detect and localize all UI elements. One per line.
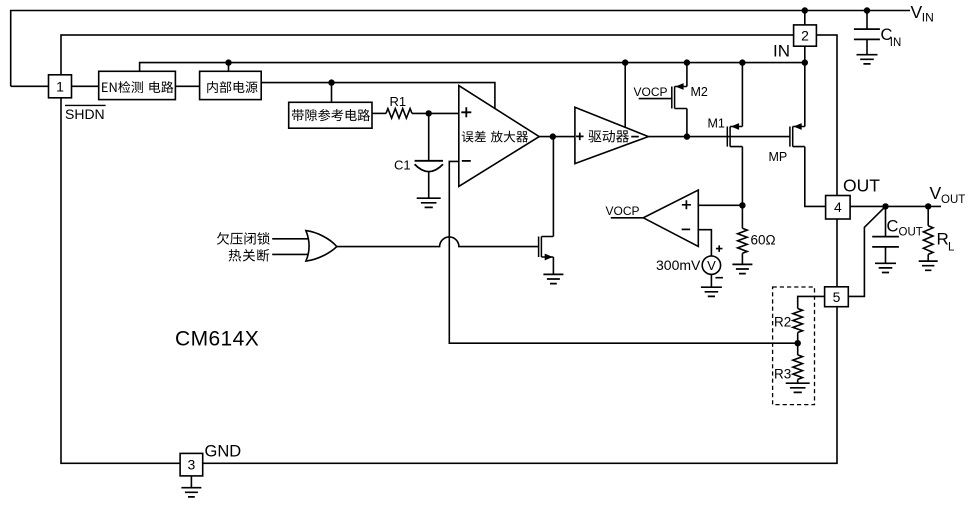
label COUT: [887, 218, 923, 239]
transistor M2: [672, 83, 687, 108]
svg-text:300mV: 300mV: [656, 257, 701, 273]
pin 1 SHDN: [49, 75, 72, 98]
wire pin2 IN vertical to MP source: [804, 11, 806, 127]
svg-text:1: 1: [56, 78, 64, 94]
wire driver output to gates: [648, 136, 790, 138]
wire error amp output: [539, 136, 575, 138]
capacitor C1: [415, 113, 443, 197]
label CIN: [881, 26, 902, 49]
wire pin4 to VOUT: [850, 205, 941, 207]
wire OR output to NMOS gate with hop: [337, 237, 539, 247]
svg-text:OUT: OUT: [843, 176, 880, 196]
label UVLO 欠压闭锁: [217, 232, 270, 245]
svg-text:R2: R2: [774, 315, 791, 330]
wire comparator + input to 60ohm node: [698, 204, 742, 206]
junction rail A / M1 source: [739, 59, 745, 65]
node feedback tap: [795, 340, 801, 346]
wire comparator output net VOCP: [611, 217, 644, 219]
wire stub to internal-power block top: [228, 63, 230, 72]
svg-text:GND: GND: [205, 443, 242, 461]
block bandgap reference: [289, 102, 372, 128]
svg-text:OUT: OUT: [899, 227, 923, 239]
svg-text:IN: IN: [890, 37, 902, 49]
svg-text:3: 3: [188, 457, 196, 473]
svg-text:V: V: [930, 183, 942, 203]
wire M2 gate / net VOCP: [639, 98, 672, 100]
junction rail A / pin2 / MP source: [802, 59, 808, 65]
voltage source 300mV: [702, 245, 723, 277]
junction rail B / bandgap: [328, 79, 334, 85]
wire R1 to error amp + input: [412, 112, 459, 114]
divider dashed box: [773, 287, 815, 405]
svg-text:VOCP: VOCP: [606, 204, 640, 218]
svg-text:VOCP: VOCP: [634, 85, 668, 99]
node R1/C1/+: [426, 110, 432, 116]
svg-text:2: 2: [801, 28, 809, 44]
node VOUT/RL: [925, 203, 931, 209]
resistor R3: [793, 355, 803, 380]
op-amp driver: [575, 107, 649, 163]
wire 60ohm to ground: [741, 253, 743, 264]
ground CIN: [857, 55, 878, 64]
label RL: [937, 230, 956, 254]
wire M2 drain stub: [686, 109, 688, 137]
junction rail A / driver supply: [622, 59, 628, 65]
op-amp VOCP comparator: [643, 190, 698, 246]
ground RL: [919, 261, 938, 270]
ground COUT: [875, 263, 896, 272]
wire M1 drain to 60ohm node: [741, 147, 743, 206]
label thermal shutdown 热关断: [229, 249, 270, 262]
svg-text:CM614X: CM614X: [175, 328, 259, 351]
svg-text:R3: R3: [774, 367, 791, 382]
ground pin3: [181, 476, 201, 497]
block EN detect circuit: [99, 71, 176, 99]
svg-text:IN: IN: [773, 42, 790, 61]
svg-text:C: C: [887, 218, 899, 236]
resistor R1: [386, 109, 412, 119]
wire EN block to internal power: [175, 85, 199, 87]
wire stub to bandgap block top: [331, 83, 333, 103]
wire driver supply stub: [624, 63, 626, 128]
svg-text:R1: R1: [390, 94, 407, 109]
svg-text:MP: MP: [769, 150, 788, 164]
svg-text:M1: M1: [708, 117, 725, 131]
wire pin5 to R2: [798, 296, 825, 308]
svg-text:R: R: [937, 230, 949, 249]
label VOUT: [930, 183, 966, 206]
wire source to ground: [710, 274, 712, 287]
svg-text:C1: C1: [394, 158, 411, 173]
resistor 60ohm: [738, 228, 748, 253]
transistor MP pass device: [790, 123, 805, 147]
block internal power: [200, 71, 262, 99]
resistor RL: [923, 206, 933, 260]
junction rail A / internal power: [225, 59, 231, 65]
pin 4 OUT: [826, 196, 851, 220]
wire NMOS source to ground: [552, 257, 554, 274]
wire pin1 to EN block: [72, 85, 99, 87]
wire R2 to R3: [797, 333, 799, 355]
junction rail A / M2 source: [684, 59, 690, 65]
wire internal supply rail A: [140, 63, 805, 72]
ground NMOS: [543, 274, 563, 283]
resistor R2: [793, 309, 803, 333]
pin 5 FB: [825, 287, 849, 307]
svg-text:M2: M2: [691, 85, 708, 99]
svg-text:IN: IN: [922, 11, 934, 25]
label SHDN with overline: [65, 105, 106, 122]
label VIN: [911, 2, 934, 25]
node comparator+/M1 drain/60ohm: [739, 202, 745, 208]
wire UVLO input: [272, 238, 309, 240]
op-amp U1 error amplifier: [459, 86, 539, 187]
wire error amp - input feedback to R2/R3 tap: [449, 161, 797, 343]
svg-text:SHDN: SHDN: [65, 106, 105, 122]
pin 2 IN: [794, 25, 817, 46]
svg-text:60Ω: 60Ω: [751, 233, 776, 248]
svg-text:V: V: [707, 258, 716, 273]
capacitor COUT: [872, 206, 899, 263]
svg-text:L: L: [948, 242, 955, 254]
junction VIN / pin2: [802, 7, 808, 13]
node driver output / M2 drain: [684, 133, 690, 139]
wire pin5 sense to OUT node: [848, 206, 885, 296]
ground C1: [417, 198, 441, 207]
wire internal rail B to error amp supply: [261, 83, 495, 109]
transistor M1: [727, 123, 742, 147]
ground 60ohm: [732, 264, 752, 273]
wire VIN top rail: [11, 11, 910, 87]
wire M1 source stub: [741, 63, 743, 127]
wire thermal input: [272, 253, 309, 255]
wire M2 source stub: [686, 63, 688, 87]
wire VIN to pin1: [11, 85, 49, 87]
wire MP drain to pin4: [805, 147, 826, 207]
pin 3 GND: [180, 453, 203, 476]
ground 300mV source: [701, 287, 722, 296]
ground R3: [786, 383, 810, 392]
svg-text:5: 5: [833, 289, 841, 305]
svg-text:OUT: OUT: [941, 194, 965, 206]
wire node to 60ohm: [741, 205, 743, 228]
transistor Q1 NMOS pulldown: [539, 237, 554, 261]
junction VIN / CIN: [864, 7, 870, 13]
capacitor CIN: [854, 11, 880, 55]
wire comparator - input to 300mV source: [698, 230, 711, 256]
wire NMOS drain to error amp output: [552, 137, 554, 237]
wire bandgap to R1: [372, 112, 386, 114]
OR gate U2: [306, 231, 337, 262]
node error amp output: [550, 133, 556, 139]
IC boundary CM614X outline: [61, 35, 837, 463]
svg-text:V: V: [911, 2, 923, 22]
node OUT/COUT: [882, 203, 888, 209]
svg-text:4: 4: [834, 199, 842, 215]
wire R3 to ground: [797, 379, 799, 382]
